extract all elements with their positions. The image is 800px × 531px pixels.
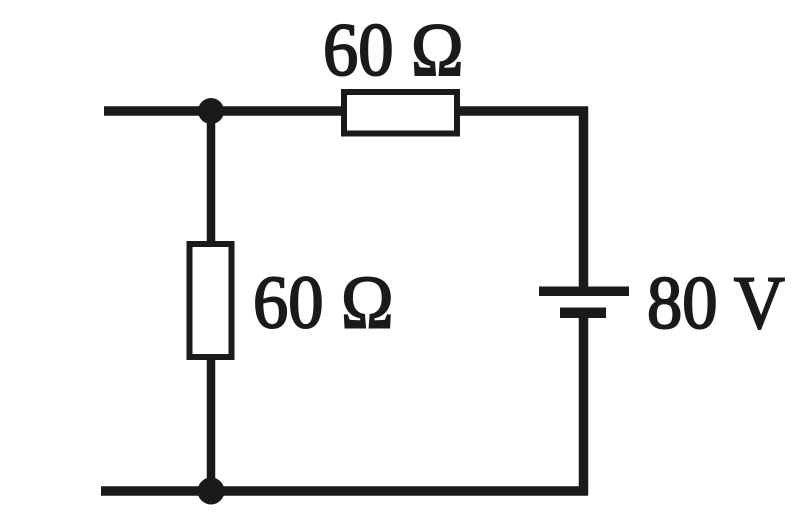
wire: top horizontal from left stub to top-right corner xyxy=(104,106,588,116)
wire: left middle vertical branch xyxy=(207,107,216,495)
resistor R1 60 ohm (horizontal, top branch) xyxy=(344,92,457,134)
battery V1 long plate (positive) xyxy=(539,287,629,297)
node: top junction dot xyxy=(198,98,224,124)
svg-text:80 V: 80 V xyxy=(647,261,785,344)
node: bottom junction dot xyxy=(198,478,225,505)
wire: right vertical lower segment (battery to bottom corner) xyxy=(579,312,589,495)
wire: right vertical upper segment (top corner to battery plate) xyxy=(579,107,589,291)
battery V1 short plate (negative) xyxy=(560,308,606,319)
svg-text:60 Ω: 60 Ω xyxy=(323,8,463,91)
resistor R2 60 ohm (vertical, left branch) xyxy=(190,244,232,357)
svg-text:60 Ω: 60 Ω xyxy=(253,261,393,344)
wire: bottom horizontal from left stub to bottom-right corner xyxy=(101,486,588,496)
